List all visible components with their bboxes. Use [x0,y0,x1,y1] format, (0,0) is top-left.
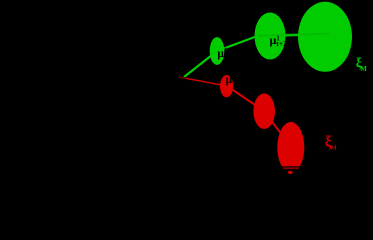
svg-text:M: M [331,145,337,152]
svg-text:t+2: t+2 [276,39,287,48]
svg-text:M: M [360,65,367,73]
